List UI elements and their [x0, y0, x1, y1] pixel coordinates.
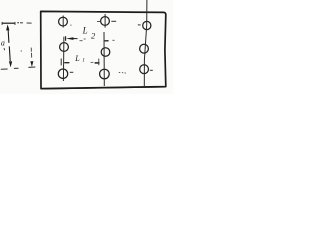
left dimension top bar: [2, 22, 16, 24]
dimension L1 right faint dash: [91, 61, 94, 63]
dimension L1 right thick dash: [95, 62, 100, 64]
second dimension side dot: [21, 50, 22, 52]
row1 centerline dash a: [97, 21, 100, 23]
second dimension down arrow: [30, 61, 33, 67]
plate bottom edge thick: [41, 87, 165, 89]
svg-text:a: a: [1, 38, 5, 47]
hole B1 middle-left: [60, 43, 69, 52]
hole C3 bottom-right: [140, 65, 149, 74]
hole A3 top-right: [143, 21, 151, 29]
dimension L2 right dot: [112, 39, 114, 41]
svg-text:L: L: [82, 26, 88, 36]
svg-text:L: L: [74, 54, 80, 63]
dimension L2 tick at column1: [65, 36, 67, 41]
second dimension dashes vertical: [30, 48, 33, 58]
row1 centerline dash b: [111, 20, 116, 22]
left dimension extension dashes top: [17, 22, 31, 24]
dimension L2 tail dash: [74, 38, 78, 40]
dimension L2 lower dash: [80, 40, 83, 42]
centerline column1 upper: [62, 16, 64, 28]
left dimension vertical line: [8, 27, 10, 61]
hole B2 center: [101, 48, 110, 57]
centerline column2 upper: [104, 14, 106, 28]
hole C1 bottom-left: [58, 69, 67, 78]
hole A1 top-left: [59, 17, 68, 26]
hole B3 middle-right: [140, 44, 149, 53]
centerline column2 lower: [103, 32, 105, 86]
dimension L1 right tick: [98, 59, 100, 66]
row3 centerline dots: [119, 71, 126, 74]
dimension L2 mid dot: [84, 38, 86, 40]
left dimension up arrow: [6, 24, 9, 30]
centerline column1 lower: [62, 37, 65, 81]
left dimension down arrow: [9, 61, 12, 67]
row1 dot right of hole A1: [70, 24, 71, 26]
hole C2 bottom-middle: [100, 69, 110, 79]
left dimension bottom extension dashes: [1, 67, 36, 69]
svg-text:1: 1: [82, 57, 85, 63]
dimension L2 right dash: [105, 40, 109, 42]
centerline column3 full: [144, 0, 147, 87]
row3 centerline dash a: [70, 71, 74, 73]
row1 centerline dash c: [138, 24, 141, 26]
dimension L2 left arrow: [66, 37, 74, 40]
dimension L1 left tick: [60, 59, 62, 66]
label a subscript tick: [3, 48, 6, 50]
hole A2 top-middle: [101, 17, 110, 26]
left dimension top bar end serifs: [2, 22, 15, 25]
plate outline: [41, 11, 166, 88]
row3 centerline dash b: [150, 69, 153, 71]
dimension L1 left dash: [64, 62, 69, 64]
